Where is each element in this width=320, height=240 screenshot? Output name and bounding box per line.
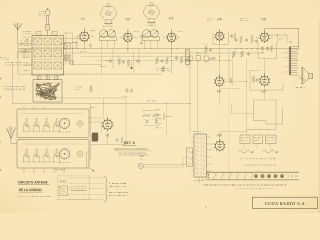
label V1 [80,16,85,21]
label ATRAS [89,106,97,108]
page mark [205,205,207,209]
wire x126 vertical [125,98,127,145]
wire plug to tuner [47,30,49,36]
wire V7 top [264,59,266,75]
junction dots AVC [236,48,258,49]
wire B+ mid bus [95,59,232,61]
svg-text:V4: V4 [217,17,223,22]
svg-text:UCOA RADIO S.A.: UCOA RADIO S.A. [265,201,307,206]
antenna unit box 2 [17,140,89,169]
svg-text:V3: V3 [169,16,175,21]
capacitor C2 [89,43,92,47]
svg-text:V6: V6 [217,89,221,93]
wire left far vertical [12,62,14,104]
wire B+ top bus [272,27,299,29]
end of heater string [288,174,297,177]
label ANTENA [55,169,65,171]
label under right can [146,24,156,26]
resistor R17 [251,35,254,43]
label mid small [147,100,157,102]
right edge shade [318,20,320,213]
capacitor C16 [247,52,250,56]
title box UCOA [253,197,318,208]
label C right of V5 [279,39,292,42]
wire unit antenna lead [11,139,17,144]
tube V8 (rectifier) [214,139,225,152]
coil L3 [21,62,32,70]
stubs box1 top [24,106,44,110]
IF can drawing (left) [100,4,116,25]
wires T1 leads [101,44,114,49]
IF transformer T1 [99,30,116,44]
wire V2 down [126,42,129,53]
label V7 [261,90,266,94]
wire V1 cathode [84,41,85,49]
wire V7 loop [250,71,283,91]
heater bus left end [199,174,209,183]
svg-text:V8: V8 [217,133,221,137]
resistor R18 [233,51,244,57]
svg-text:B: B [205,205,207,209]
label CUERDA DEL DIAL [4,87,25,90]
wire x66 vertical [65,33,68,64]
tube V1 (antenna unit) [102,117,114,130]
voltage selector [156,110,173,128]
label V5 [261,17,267,22]
heater pin labels [203,184,286,186]
label on plug [39,12,46,16]
resistor R right of V6 [219,78,240,89]
svg-text:220: 220 [140,155,145,158]
capacitor C5 [105,59,112,63]
tube V2 (IF amp) [120,29,139,43]
dashed chassis leads [68,178,104,200]
capacitor C10 [185,58,188,62]
wire x77 vertical [61,36,79,49]
tube heaters string [206,172,253,180]
label chassis subtitle 2 [119,153,150,156]
wire y144.8 [91,144,126,146]
wire x101 down [100,49,102,75]
electrolytic C17c [189,56,193,63]
wire left return vertical [17,44,19,74]
capacitor C6 [122,60,125,64]
wire right vertical (B+) [297,28,299,50]
wire route a [254,100,283,124]
label under left can [103,25,112,27]
resistor R21 [76,86,93,93]
trimmer box right upper [65,43,71,49]
label 220V [140,155,145,161]
capacitor C15 [255,39,258,43]
label left of V4 [207,18,212,20]
tube V3 (detector) [163,29,182,43]
left edge marks [0,57,1,171]
label left of tuner [20,41,31,46]
label under waves [240,158,275,160]
wire mains [147,158,187,167]
label CIRCUITO ANTENA [18,181,50,193]
antenna ANT (top left) [14,23,22,30]
capacitor C20 [124,88,134,92]
label V6 [217,89,221,93]
wire end squiggle [87,152,95,172]
wire V6 down [218,86,220,104]
label near corner [101,64,106,67]
label V4 [217,17,223,22]
band switch S1 (tuner block) [32,36,64,76]
trimmer capacitor CT2 [69,60,73,64]
label focos [245,164,276,166]
resistor R10 [166,58,169,65]
wire T5 to V8 [211,144,215,150]
capacitor C14 [245,38,248,42]
svg-text:CIRCUITO ANTENA: CIRCUITO ANTENA [18,181,49,185]
label V1 (unit) [105,133,109,137]
label near C20 [122,96,130,98]
capacitor C21 (unit) [116,137,124,143]
label chassis subtitle 1 [114,147,153,151]
tube V5 (output) [256,31,273,43]
pickup connector circles [60,180,66,183]
tube V1 (converter) [76,28,96,43]
resistor R20 [210,57,216,59]
tube V6 (AF) [214,75,224,87]
wire tuner to V1 b [64,43,77,49]
resistor R14 [203,44,208,52]
wire bus 2 [60,52,264,54]
wire x112.9 down [112,49,114,68]
wire route b [247,58,276,135]
label far left [3,58,10,60]
wire corner V1 [64,33,102,65]
wire unit tube down [102,122,108,145]
pickup inner parts [59,186,68,196]
trimmer box right lower [65,55,71,61]
terminal boxes (output) [240,135,276,144]
capacitors left of T2 [140,34,143,45]
resistor R19a [270,46,272,52]
dial lamps LP1-LP5 [254,174,283,177]
leads under box2 [24,168,65,173]
capacitor C13 [235,38,238,42]
label left of tuner 2 [21,53,30,55]
wire V5 to bus [265,28,272,31]
transformer leads right [207,137,212,171]
IF transformer T2 [142,30,159,44]
dial cord drum assembly [33,77,62,102]
legend brace [104,177,107,202]
capacitor C7 [136,59,139,63]
resistor R9 [156,58,159,65]
wire y103 bus [13,103,191,105]
label ANT EXTERIOR [23,32,34,34]
wire x166 vertical [165,104,167,136]
mounting tab right [52,32,57,36]
capacitor C12 [209,48,212,52]
wire x228.9 down [228,50,230,180]
wire V8 up [220,132,247,140]
pickup dashed box [58,176,90,200]
resistor R7 [116,56,121,65]
wires boxes to waves [244,144,270,150]
coil L1 (antenna) [18,49,32,58]
switch fuse box [187,148,193,166]
trimmer capacitor CT1 [65,55,69,59]
wire V6 right [224,81,247,83]
chassis connector strip [289,46,298,76]
label above V6 [196,52,207,54]
label cluster V3 [156,69,170,71]
wire y98 [40,97,126,99]
power transformer T5 [194,134,207,181]
electrolytic C19 [204,56,208,64]
wire frame under V4 [213,32,228,44]
wire box V5-V7 [258,42,276,59]
label V2 [125,17,131,22]
label right of V4 [240,18,248,20]
wires T2 leads [144,44,157,49]
choke waves B [263,150,278,153]
capacitor C17a [261,46,264,53]
wire x232.6 down [232,53,234,86]
wire mid vertical x190 [189,57,191,134]
antenna unit box 1 [17,109,89,138]
capacitor C17b [264,46,269,55]
label V3 [169,16,175,21]
svg-text:DISPOSICION ALAMBRADO: DISPOSICION ALAMBRADO [114,147,148,151]
wire V3 down [171,42,172,74]
capacitor C17 [256,78,259,82]
wire heater bus B [207,179,300,181]
volume control (dark bar) [186,50,190,69]
wire V4 to V6 [219,44,221,77]
pickup label NOTA [71,187,87,191]
wire heater bus A [207,171,300,173]
IF can drawing (right) [143,3,159,24]
label under tuner [5,63,28,66]
resistor R19 (V7 grid) [252,76,255,83]
svg-text:DE LA UNIDAD: DE LA UNIDAD [19,188,43,192]
stubs tuner to dial [38,75,57,80]
unit transformer (dark) [91,133,99,141]
dots AVC left [145,47,177,50]
wire V7 down [254,86,276,101]
volume potentiometer [162,66,165,72]
label 557 X [123,140,137,145]
svg-text:V1: V1 [80,16,85,21]
wire right of V5 [269,35,287,44]
wire unit a [89,118,103,122]
capacitor C8 [161,59,164,63]
label above title box [237,187,272,189]
label above transformer [193,131,201,133]
wire x139 down [138,49,140,66]
wire tuner to V1 a [64,38,81,40]
wire AVC bus [18,48,298,50]
wire screen bus [80,56,190,58]
mounting tab left [36,32,41,36]
wire x90 vertical [90,104,92,161]
resistor R16 [240,36,243,43]
tube V7 (output) [259,74,270,87]
mains plug P1 [138,163,147,168]
electrolytic C18 [196,54,200,63]
antenna symbol (unit) [6,126,15,139]
antenna plug connector [45,8,50,30]
choke waves A [238,150,253,153]
tone control network [142,110,160,125]
wires into connector [283,53,289,72]
coil L2 (osc) [22,48,30,58]
junction dots mid [166,56,247,104]
legend text rows [109,184,128,196]
transformer leads left [191,137,195,170]
svg-text:557 X: 557 X [124,140,136,145]
capacitor C9 [175,56,178,60]
wire antenna lead-in [18,30,32,44]
capacitor C right of V4 [230,33,236,39]
wire V4 down [219,40,221,44]
label V8 [217,133,221,137]
junction marks V1 [78,48,86,51]
svg-text:V5: V5 [261,17,267,22]
label speaker [296,87,305,88]
wire x103 vertical [103,98,105,118]
speaker LS1 [300,67,313,85]
electrolytic dark dot [130,62,132,69]
wire route c [232,104,254,114]
resistor R11 [180,57,183,64]
wire mid vertical x197.5 [197,62,199,134]
capacitor C1 (antenna series) [23,37,30,43]
label small under circuito [18,195,51,197]
tube V4 (AF amp) [215,30,225,42]
resistor R8 [127,60,130,67]
svg-text:V2: V2 [125,17,131,22]
wire ground bus [18,73,162,75]
wire x133 down [132,53,134,74]
